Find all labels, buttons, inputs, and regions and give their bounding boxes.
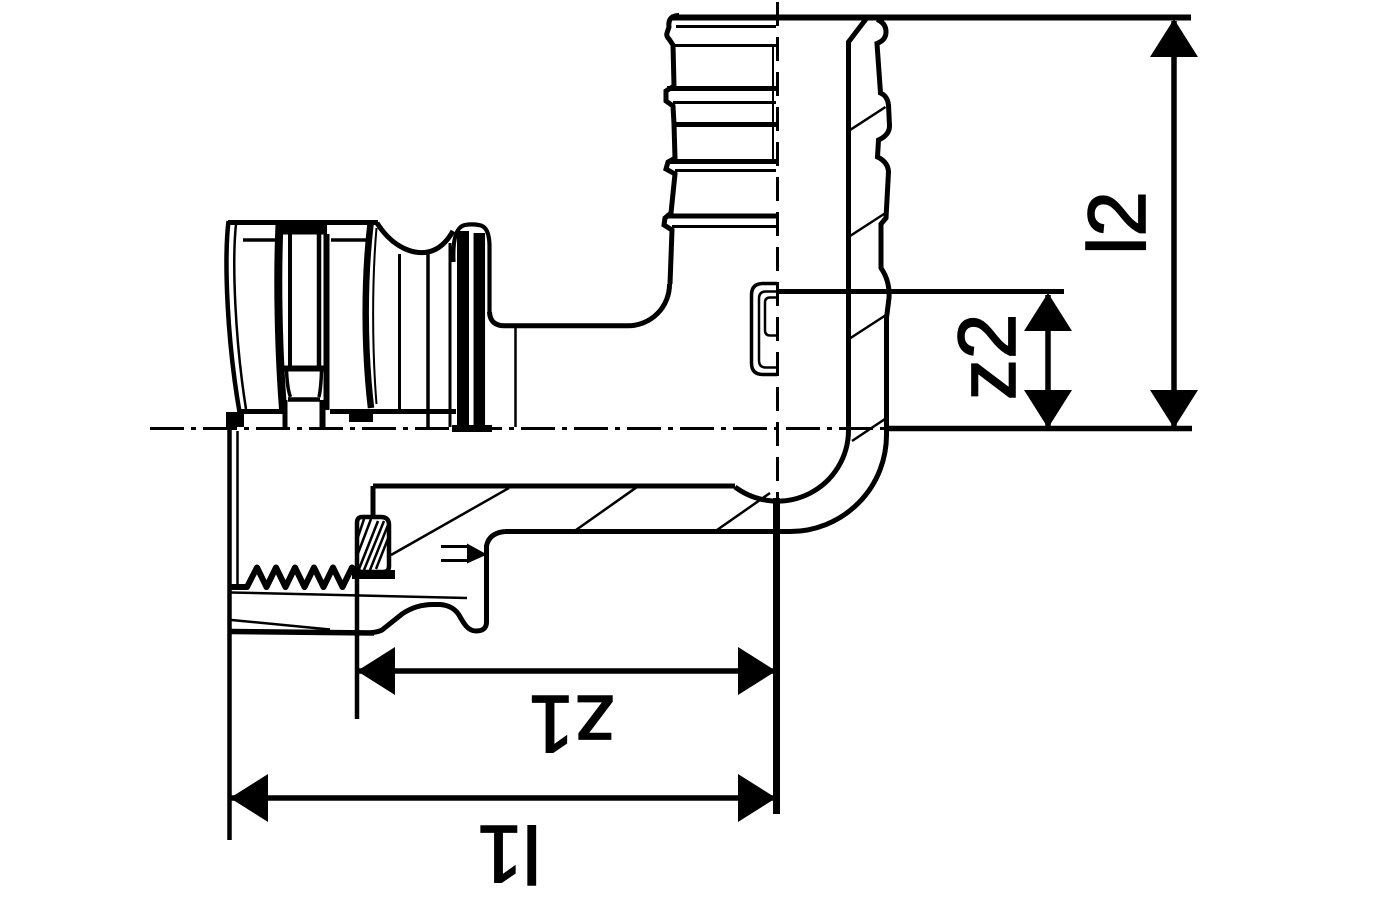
l1 arrow left [230,774,268,822]
tail bottom face [232,632,375,634]
clip inner profile [759,292,777,368]
sleeve left edge inner [234,224,246,409]
svg-text:z2: z2 [942,314,1033,401]
contour line segments [243,238,277,242]
sleeve left edge outer [227,221,240,412]
window side tabs [283,400,288,428]
thread zigzag [230,568,357,588]
window divider [283,366,324,372]
z2 arrow down [1024,390,1072,428]
pipe rib lines [673,44,776,47]
svg-text:z1: z1 [529,678,616,769]
cap right stripe [474,233,486,426]
window vertical right [317,234,322,368]
window vertical left [288,234,292,368]
trapezoid sides [287,371,291,397]
sleeve band C [366,224,371,408]
centerline extension right (l2 z2 bottom extension) [886,426,1192,432]
chamfer line [232,620,331,630]
insert top left edge [371,486,376,517]
clip hook [765,298,777,336]
trapezoid bottom line [288,397,320,402]
socket step [487,532,506,547]
sleeve bottom tab left [226,412,244,427]
z1 arrow right [738,647,776,695]
body fillet [628,284,670,326]
seal bottom bar [352,570,395,579]
shoulder line z2 top extension [777,289,1064,294]
z1 left extension [355,575,360,719]
insert curvy bottom profile [371,604,487,632]
horizontal centerline [150,427,888,430]
vertical arm outer wall [877,20,890,437]
seal ring section [357,517,389,572]
sleeve end cap dome outline [453,224,489,314]
window header block [281,222,327,235]
l1 arrow right [738,774,776,822]
bore bottom line [373,484,735,489]
sleeve top edge [228,220,378,225]
end face inner [236,431,239,588]
pipe inner edge line [772,45,774,160]
sleeve bottom tab C [349,411,373,422]
window vertical outer [324,234,330,410]
z2 arrow up [1024,293,1072,331]
taper line [231,593,467,599]
seat funnel [441,545,468,548]
pipe top edge and l2 top extension [671,15,1191,21]
dimension z2 line [1045,295,1051,426]
sleeve bottom edge [240,409,283,414]
l2 arrow down [1150,390,1198,428]
svg-text:l2: l2 [1072,191,1163,255]
pipe top second line [676,25,776,28]
pipe left profile [664,16,679,285]
wavy top edge [377,223,453,253]
dimension l2 line [1171,21,1177,426]
dimension z1 line [357,668,776,674]
svg-text:l1: l1 [477,808,541,899]
bottom outer line of horizontal arm [505,529,790,534]
end face outer (with l1 extension) [227,430,232,840]
cap bottom bar [452,425,492,432]
cap left stripe [457,231,469,426]
wall hatch lines [849,107,886,131]
wavy region verticals [398,254,401,409]
l2 arrow up [1150,19,1198,57]
insert right edge [484,545,489,623]
vertical arm inner wall and inner elbow arc [735,19,866,501]
band hatch lines [391,488,509,555]
outer elbow arc [790,434,887,532]
body vertical edge [514,328,517,427]
sleeve band A [278,224,283,409]
clip outer profile [752,284,778,375]
right extension line for z1 l1 [773,498,780,814]
z1 arrow left [357,647,395,695]
dimension l1 line [230,795,776,801]
vertical centerline [776,2,779,508]
body plateau [490,312,629,326]
